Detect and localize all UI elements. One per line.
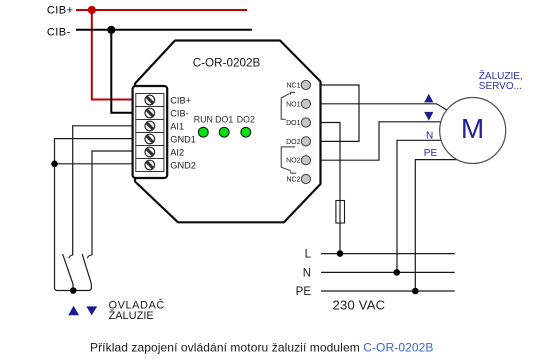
switch S2 blade bbox=[82, 254, 91, 284]
svg-text:PE: PE bbox=[296, 286, 312, 298]
svg-text:SERVO...: SERVO... bbox=[479, 81, 522, 92]
wire NC1 to DO2 interlock loop bbox=[321, 85, 360, 141]
switch S1 blade bbox=[63, 254, 73, 290]
svg-text:CIB+: CIB+ bbox=[170, 95, 191, 105]
LED RUN bbox=[198, 127, 208, 137]
wire GND2 to ground node bbox=[55, 163, 135, 165]
screw terminal 6 bbox=[145, 160, 155, 170]
svg-text:230 VAC: 230 VAC bbox=[333, 297, 386, 312]
LED DO1 bbox=[219, 127, 229, 137]
node PE junction bbox=[412, 288, 419, 295]
power line L bbox=[321, 253, 455, 255]
wire DO1 to fuse and L bbox=[321, 123, 341, 255]
svg-text:DO2: DO2 bbox=[237, 115, 255, 125]
wire CIB- bus bbox=[76, 29, 252, 31]
wire CIB+ drop to terminal bbox=[92, 10, 134, 100]
terminal cell CIB+ bbox=[136, 94, 164, 107]
svg-text:NO2: NO2 bbox=[286, 158, 301, 165]
svg-text:Příklad zapojení ovládání moto: Příklad zapojení ovládání motoru žaluzií… bbox=[90, 341, 433, 355]
terminal cell CIB- bbox=[136, 107, 164, 120]
arrow up at motor bbox=[424, 94, 433, 103]
svg-text:CIB+: CIB+ bbox=[47, 5, 74, 17]
svg-text:CIB-: CIB- bbox=[47, 26, 71, 38]
terminal circle DO2 bbox=[301, 137, 310, 146]
svg-text:L: L bbox=[305, 249, 312, 261]
terminal cell GND2 bbox=[136, 159, 164, 172]
wire CIB+ bus (red) bbox=[76, 9, 247, 11]
wire NO1 to motor (up) bbox=[321, 104, 448, 111]
svg-text:NC2: NC2 bbox=[286, 177, 300, 184]
screw terminal 2 bbox=[145, 108, 155, 118]
arrow up (blinds control) bbox=[68, 306, 79, 316]
terminal circle NO1 bbox=[301, 99, 310, 108]
wire CIB- drop to terminal bbox=[111, 30, 134, 113]
wire GND1 to ground node bbox=[55, 139, 135, 164]
screw terminal 5 bbox=[145, 147, 155, 157]
svg-text:DO1: DO1 bbox=[215, 115, 233, 125]
svg-text:AI1: AI1 bbox=[170, 121, 184, 131]
wire AI1 to left switch bbox=[73, 126, 134, 255]
svg-text:NO1: NO1 bbox=[286, 101, 301, 108]
terminal circle DO1 bbox=[301, 118, 310, 127]
wire AI2 to right switch bbox=[92, 151, 134, 255]
svg-text:GND1: GND1 bbox=[170, 134, 196, 144]
node GND junction dot bbox=[51, 161, 58, 168]
svg-text:CIB-: CIB- bbox=[170, 108, 188, 118]
wire PE to motor bbox=[415, 160, 458, 291]
power line PE bbox=[321, 290, 455, 292]
screw terminal 1 bbox=[145, 95, 155, 105]
screw terminal 3 bbox=[145, 121, 155, 131]
svg-text:DO2: DO2 bbox=[286, 139, 301, 146]
node switch common junction dot bbox=[70, 287, 77, 294]
motor M1 body bbox=[440, 98, 506, 164]
arrow down (blinds control) bbox=[86, 306, 97, 315]
svg-text:M: M bbox=[461, 113, 484, 144]
terminal cell GND1 bbox=[136, 133, 164, 146]
svg-text:PE: PE bbox=[424, 148, 438, 159]
svg-text:DO1: DO1 bbox=[286, 120, 301, 127]
node junction on CIB- bus bbox=[107, 26, 115, 34]
terminal cell AI1 bbox=[136, 120, 164, 133]
LED DO2 bbox=[241, 127, 251, 137]
node N junction bbox=[394, 269, 401, 276]
module C-OR-0202B body (octagon) bbox=[135, 41, 321, 223]
relay contact symbol K1 bbox=[281, 92, 295, 119]
svg-text:N: N bbox=[426, 130, 433, 141]
node L junction bbox=[337, 250, 344, 257]
svg-text:N: N bbox=[303, 267, 311, 279]
wire GND common down to switches bbox=[55, 164, 92, 291]
svg-text:RUN: RUN bbox=[194, 115, 213, 125]
terminal circle NO2 bbox=[301, 156, 310, 165]
relay contact symbol K2 bbox=[281, 147, 296, 173]
svg-text:AI2: AI2 bbox=[170, 147, 184, 157]
terminal circle NC2 bbox=[301, 174, 310, 183]
svg-text:GND2: GND2 bbox=[170, 160, 196, 170]
wire NO2 to motor (down) bbox=[321, 122, 446, 160]
node junction on CIB+ bus bbox=[88, 6, 96, 14]
svg-text:NC1: NC1 bbox=[286, 83, 300, 90]
arrow down at motor bbox=[424, 112, 433, 121]
switch S2 (down) contact hook bbox=[87, 255, 91, 258]
terminal block X1 bbox=[133, 86, 168, 178]
svg-text:ŽALUZIE: ŽALUZIE bbox=[109, 309, 154, 322]
terminal circle NC1 bbox=[301, 80, 310, 89]
wire N to motor bbox=[397, 140, 442, 272]
power line N bbox=[321, 271, 455, 273]
svg-text:C-OR-0202B: C-OR-0202B bbox=[193, 57, 261, 70]
fuse F1 bbox=[336, 201, 345, 224]
screw terminal 4 bbox=[145, 134, 155, 144]
switch S1 (up) contact hook bbox=[69, 255, 73, 258]
terminal cell AI2 bbox=[136, 146, 164, 159]
